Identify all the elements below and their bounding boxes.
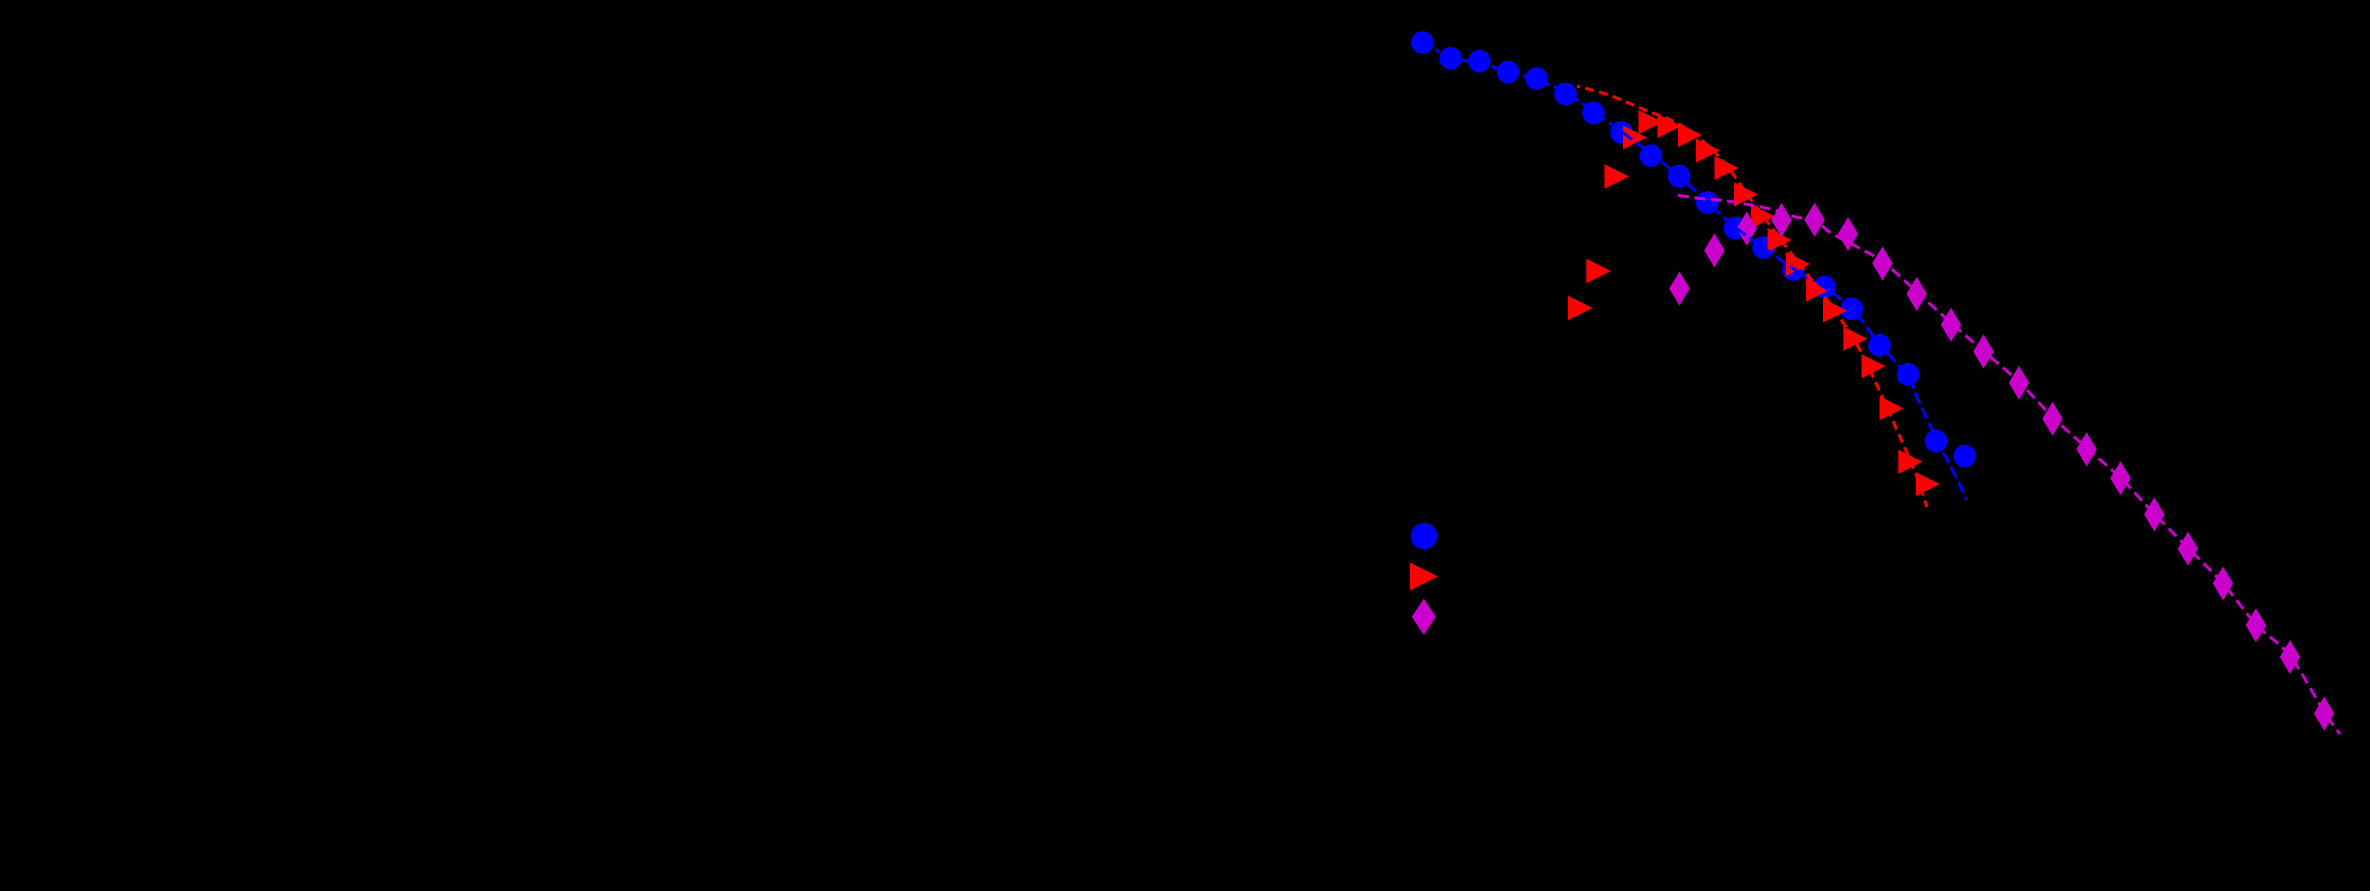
red dashed fit curve	[1577, 86, 1927, 507]
blue circle data series (20 markers)	[1411, 31, 1976, 467]
legend marker: magenta thin diamond	[1412, 599, 1436, 635]
legend marker: red right triangle	[1410, 563, 1438, 591]
magenta dashed fit curve	[1678, 195, 2340, 734]
blue dashed fit curve	[1435, 50, 1967, 501]
legend marker: blue circle	[1411, 523, 1438, 550]
magenta thin-diamond data series (20 markers)	[1669, 203, 2334, 731]
red right-triangle outlier markers (3)	[1568, 164, 1629, 320]
red right-triangle data series (chain, 17 markers)	[1623, 110, 1940, 496]
